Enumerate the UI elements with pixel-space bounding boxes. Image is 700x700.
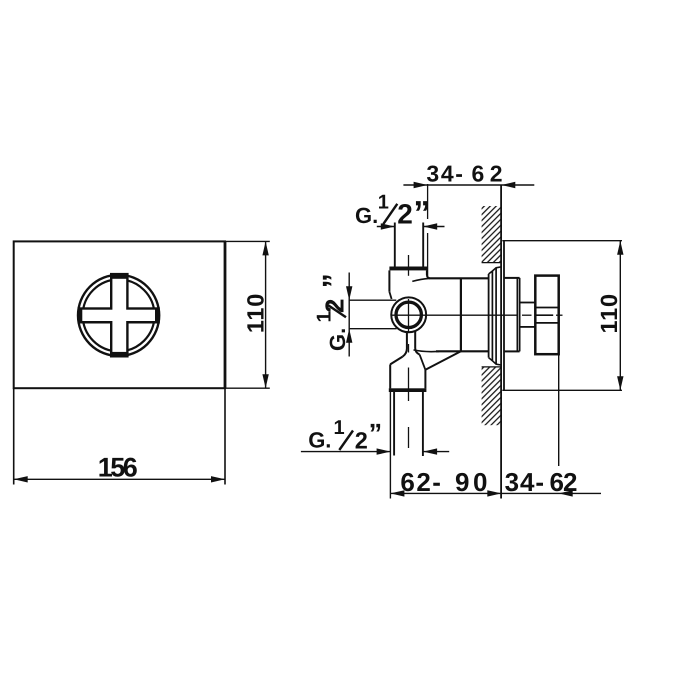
bottom dims line xyxy=(390,492,601,494)
svg-text:156: 156 xyxy=(98,452,138,482)
svg-text:”: ” xyxy=(369,419,383,449)
sleeve bottom edge xyxy=(505,350,520,352)
upper elbow left transition xyxy=(389,292,391,299)
body top edge xyxy=(429,277,488,279)
knob extension line down xyxy=(558,354,560,466)
svg-text:34-: 34- xyxy=(505,467,544,497)
G1/2 side dim (port) xyxy=(348,273,350,357)
side port inner circle xyxy=(396,302,421,327)
svg-text:G.: G. xyxy=(325,328,350,351)
svg-text:2: 2 xyxy=(397,199,413,230)
knob hole bottom line xyxy=(536,314,554,316)
svg-text:1: 1 xyxy=(334,417,345,439)
62-90 left extension line xyxy=(389,392,391,499)
34-62 top extension line xyxy=(427,184,429,219)
valve body left edge xyxy=(460,278,462,351)
upper elbow right edge xyxy=(426,270,428,275)
G1/2 top dim xyxy=(377,226,395,228)
svg-text:62-: 62- xyxy=(400,467,441,497)
lower elbow right small diagonal xyxy=(420,355,426,370)
wall hatch lower top border xyxy=(482,366,501,368)
handle cross vertical bar (black) xyxy=(110,273,129,358)
svg-text:2: 2 xyxy=(320,299,350,313)
stem below port left xyxy=(403,331,407,357)
knob xyxy=(535,276,558,355)
valve body bottom edge xyxy=(436,350,488,352)
front plate xyxy=(14,241,225,388)
gusset diagonal xyxy=(425,351,461,370)
sleeve right double line xyxy=(516,278,518,352)
extension line right (156 dim) xyxy=(224,388,226,484)
handle cross vertical bar (white core) xyxy=(112,279,126,352)
extension line left (156 dim) xyxy=(13,388,15,484)
G1/2 bottom dim xyxy=(301,451,391,453)
ring top steps xyxy=(489,267,501,274)
svg-text:110: 110 xyxy=(242,294,268,334)
34-62 top dim line xyxy=(403,184,534,186)
svg-text:”: ” xyxy=(318,273,351,288)
bottom fillet arc xyxy=(414,350,440,352)
110 dim side: extension bottom xyxy=(502,389,622,391)
top pipe right edge xyxy=(422,223,424,267)
110 dim front: extension top xyxy=(225,240,270,242)
side port outer circle xyxy=(391,297,426,332)
wall hatch upper xyxy=(482,206,501,263)
lower elbow left edge xyxy=(389,364,391,388)
svg-text:2: 2 xyxy=(355,428,368,454)
handle cross horizontal bar (black) xyxy=(78,307,160,323)
top thread collar (solid) xyxy=(389,267,427,271)
svg-text:62: 62 xyxy=(550,467,578,497)
stem below port right xyxy=(415,331,419,355)
handle inner circle xyxy=(83,280,155,352)
110 dim side: dimension line xyxy=(619,241,621,391)
bottom pipe right edge xyxy=(422,392,424,456)
handle outer circle xyxy=(78,275,159,356)
svg-text:G.: G. xyxy=(355,203,378,228)
bottom pipe left edge xyxy=(393,392,395,456)
stem bottom xyxy=(520,326,536,328)
top fillet arc xyxy=(412,278,429,281)
lower elbow right edge xyxy=(424,370,426,389)
G1/2 side label (rotated) xyxy=(313,273,350,351)
knob slot line lower xyxy=(535,322,558,324)
stem top xyxy=(520,302,536,304)
svg-text:G.: G. xyxy=(308,428,331,453)
top pipe left edge xyxy=(394,223,396,267)
wall hatch upper bottom border xyxy=(482,262,501,264)
knob slot line upper xyxy=(535,307,558,309)
sleeve top edge xyxy=(505,277,520,279)
bottom thread collar (solid) xyxy=(389,388,427,392)
front plate right edge (heavier) xyxy=(224,241,227,388)
plate edge line xyxy=(503,241,505,391)
svg-text:110: 110 xyxy=(596,294,622,334)
156 dim: dimension line xyxy=(14,478,225,480)
110 dim side: extension top xyxy=(502,240,622,242)
wall hatch lower xyxy=(482,367,501,425)
110 dim front: dimension line xyxy=(265,241,267,388)
upper elbow corner xyxy=(427,275,430,278)
svg-text:”: ” xyxy=(413,195,430,233)
ring bottom steps xyxy=(489,358,501,365)
wall line xyxy=(500,185,502,499)
110 dim front: extension bottom xyxy=(225,387,270,389)
vertical centerline of pipes xyxy=(408,255,410,276)
handle cross horizontal bar (white core) xyxy=(82,310,155,321)
horizontal centerline xyxy=(391,314,519,316)
lower elbow left chamfer xyxy=(390,357,402,365)
upper elbow left edge xyxy=(388,270,390,291)
ring stack xyxy=(488,274,490,358)
svg-text:34-: 34- xyxy=(426,161,463,187)
svg-text:1: 1 xyxy=(378,192,389,214)
